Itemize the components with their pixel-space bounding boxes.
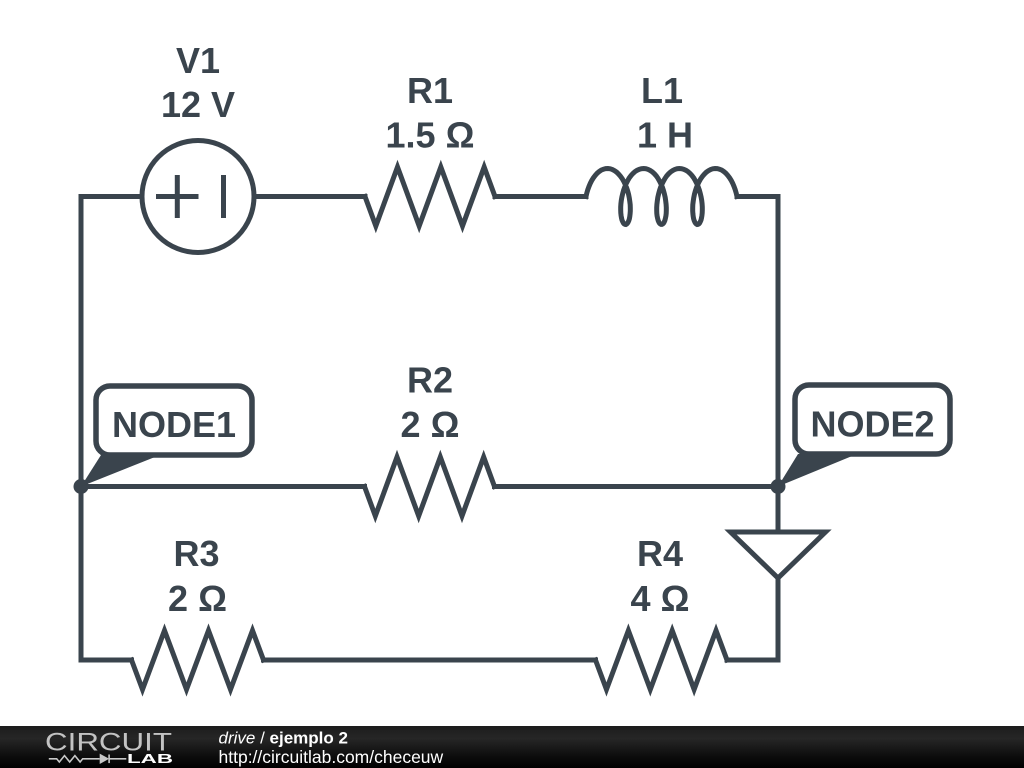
- svg-text:R1: R1: [407, 70, 453, 111]
- wire: node2 down to ground: [776, 487, 781, 533]
- svg-text:LAB: LAB: [127, 752, 173, 766]
- svg-text:1 H: 1 H: [637, 115, 693, 156]
- logo mini circuit: wire: [49, 755, 127, 764]
- wire: R3 to bottom left corner: [81, 658, 132, 663]
- svg-text:http://circuitlab.com/checeuw: http://circuitlab.com/checeuw: [219, 747, 444, 767]
- wire: left rail to V1: [81, 194, 142, 199]
- resistor R1: [365, 167, 495, 226]
- callout NODE1 tail: [81, 455, 160, 487]
- wire: V1 to R1: [254, 194, 365, 199]
- svg-text:1.5 Ω: 1.5 Ω: [386, 115, 475, 156]
- svg-text:drive / ejemplo 2: drive / ejemplo 2: [219, 729, 348, 748]
- svg-text:R4: R4: [637, 533, 683, 574]
- callout NODE2 tail: [778, 454, 857, 487]
- voltage source V1: [142, 141, 254, 253]
- footer bar: [0, 726, 1024, 768]
- svg-text:2 Ω: 2 Ω: [401, 404, 460, 445]
- wire: left vertical rail: [79, 197, 84, 661]
- node NODE1 dot: [74, 479, 89, 494]
- svg-text:2 Ω: 2 Ω: [168, 578, 227, 619]
- resistor R2: [365, 457, 495, 516]
- logo diode triangle: [100, 754, 109, 764]
- callout NODE2 box: [795, 385, 950, 454]
- ground: [731, 532, 826, 578]
- wire: L1 to right rail: [737, 194, 778, 199]
- resistor R3: [132, 631, 264, 690]
- svg-text:L1: L1: [641, 70, 683, 111]
- callout NODE1 box: [96, 386, 252, 455]
- wire: ground to bottom wire: [776, 578, 781, 660]
- svg-text:NODE2: NODE2: [810, 404, 934, 445]
- svg-text:R3: R3: [173, 533, 219, 574]
- wire: R2 to node2: [495, 484, 779, 489]
- svg-text:R2: R2: [407, 360, 453, 401]
- wire: R4 to R3: [264, 658, 596, 663]
- node NODE2 dot: [771, 479, 786, 494]
- logo diode: [108, 755, 110, 764]
- svg-text:NODE1: NODE1: [112, 404, 236, 445]
- wire: R1 to L1: [495, 194, 586, 199]
- resistor R4: [596, 631, 728, 690]
- wire: middle row node1 to R2: [81, 484, 365, 489]
- wire: right vertical rail: [776, 197, 781, 487]
- wire: bottom right corner to R4: [727, 658, 778, 663]
- svg-text:4 Ω: 4 Ω: [631, 578, 690, 619]
- inductor L1: [586, 169, 737, 225]
- svg-text:12 V: 12 V: [161, 84, 235, 125]
- svg-text:V1: V1: [176, 40, 220, 81]
